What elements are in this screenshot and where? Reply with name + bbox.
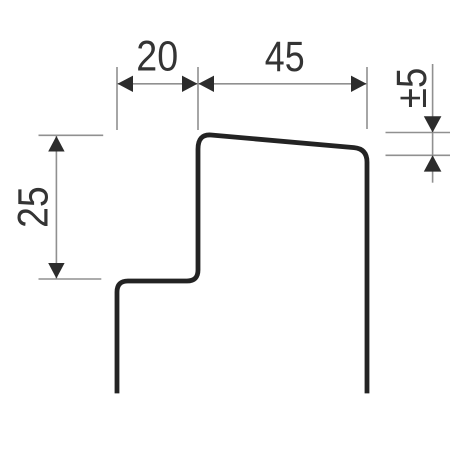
svg-text:25: 25	[9, 186, 57, 228]
arrowhead up (tolerance)	[424, 155, 442, 171]
reference line bottom (dim 25)	[39, 278, 102, 280]
arrowhead down of dim 25	[48, 263, 64, 279]
reference line top (dim 25)	[39, 134, 104, 136]
label 20	[136, 32, 178, 80]
extension line middle (dim 20/45)	[197, 67, 199, 130]
tolerance reference line upper	[386, 132, 451, 134]
tolerance dimension line (vertical, right)	[432, 64, 434, 183]
profile outline (Z-flashing cross-section)	[117, 135, 367, 393]
svg-text:±5: ±5	[388, 68, 435, 108]
tolerance reference line lower	[386, 154, 451, 156]
label 25 (rotated)	[9, 186, 57, 228]
extension line left (dim 20)	[116, 67, 118, 130]
extension line right (dim 45)	[366, 67, 368, 129]
dimension line 25 (vertical)	[55, 136, 57, 279]
arrowhead left of dim 20	[118, 76, 134, 92]
arrowhead down (tolerance)	[424, 116, 442, 132]
dimension line 20	[117, 83, 198, 85]
arrowhead up of dim 25	[48, 136, 64, 152]
arrowhead left of dim 45	[199, 76, 215, 92]
svg-text:20: 20	[136, 32, 178, 80]
arrowhead right of dim 20	[182, 76, 198, 92]
svg-text:45: 45	[265, 33, 305, 81]
dimension line 45	[198, 83, 367, 85]
label 45	[265, 33, 305, 81]
label ±5 (rotated)	[388, 68, 435, 108]
arrowhead right of dim 45	[351, 76, 367, 92]
